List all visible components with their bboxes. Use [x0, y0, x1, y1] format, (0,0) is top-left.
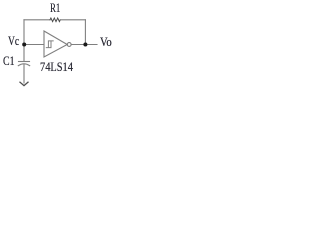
label Vc — [8, 34, 19, 47]
wire output — [71, 44, 97, 46]
resistor R1 — [50, 18, 60, 22]
wire right vertical — [84, 20, 86, 45]
wire inverter input — [24, 44, 44, 46]
ground arrow — [20, 82, 28, 85]
wire left vertical — [23, 20, 25, 61]
label Vo — [100, 35, 112, 48]
node junction right (Vo) — [83, 43, 87, 47]
op-amp U1 74LS14 inverter triangle — [44, 31, 67, 57]
label 74LS14 — [40, 60, 73, 73]
wire top-left segment — [24, 19, 50, 21]
wire top-right segment — [60, 19, 85, 21]
capacitor C1 curved plate — [18, 64, 29, 66]
inverter output bubble — [67, 43, 71, 47]
label R1 — [50, 1, 60, 14]
label C1 — [3, 54, 15, 67]
wire below capacitor — [23, 64, 25, 83]
hysteresis symbol — [46, 41, 53, 48]
node junction left (Vc) — [22, 43, 26, 47]
capacitor C1 top plate — [19, 61, 30, 63]
